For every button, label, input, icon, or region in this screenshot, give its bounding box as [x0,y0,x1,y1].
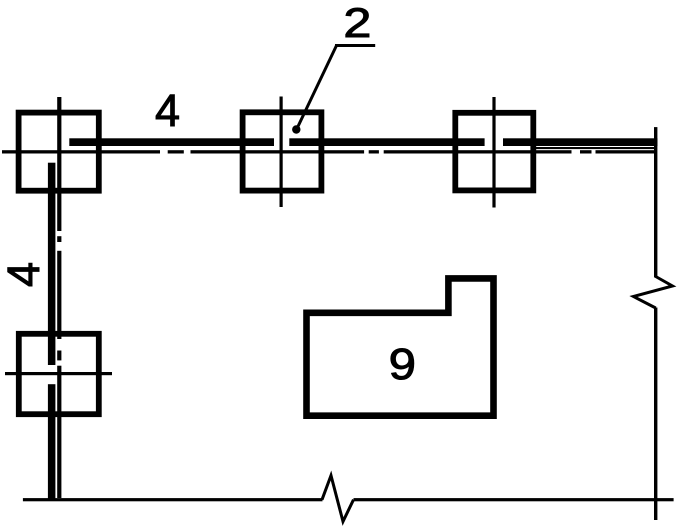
column square top-right [455,113,533,191]
wire column 3 centerline [492,97,495,208]
break symbol right [634,277,673,309]
svg-text:4: 4 [155,85,180,136]
svg-text:4: 4 [0,262,49,287]
column square top-left [19,113,99,191]
wire bottom line left [23,498,323,501]
equipment outline 9 [303,275,497,419]
node B vertical axis centerline [57,97,61,498]
wire column 2 centerline [280,97,283,208]
column square left-middle [19,334,99,414]
wire right boundary line lower [654,308,657,521]
wire leader line of label 2 [297,46,375,129]
svg-text:2: 2 [343,0,371,46]
wire left wall thick bar [48,163,56,500]
svg-text:9: 9 [389,339,416,388]
column square top-middle [243,112,322,190]
break symbol bottom [322,476,354,522]
node leader dot [292,125,300,133]
wire top wall thick bar [69,138,657,146]
wire right boundary line upper [654,127,657,277]
wire bottom line right [354,498,674,501]
wire top wall thin face line [536,147,656,149]
node A horizontal axis centerline [2,150,656,153]
wire column 4 horizontal tick [5,372,112,375]
